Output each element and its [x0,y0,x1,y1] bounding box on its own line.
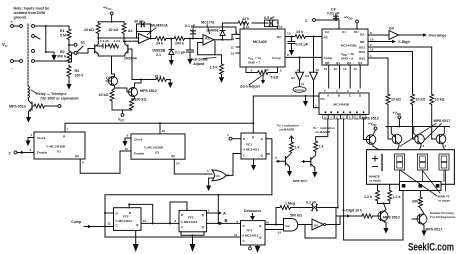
svg-text:0.01 μF: 0.01 μF [296,43,309,47]
svg-text:isolated from DVM: isolated from DVM [14,11,46,15]
capacitor 0.01uF on RC [288,37,295,48]
wire collector rail [98,21,124,23]
relay contact pair top [20,25,23,28]
svg-text:5 kΩ: 5 kΩ [271,76,279,80]
svg-text:Q4: Q4 [358,61,362,65]
svg-text:Enable: Enable [37,151,47,155]
svg-text:Comp: Comp [272,56,281,60]
FF2 Q to FF3 clock [141,222,179,224]
svg-text:½ MC14013: ½ MC14013 [243,148,260,152]
transistor T0 sign driver [366,135,376,145]
inverter G2 [299,57,301,72]
resistor R2 [68,45,70,51]
FF2 R loop from Q [129,204,153,223]
U1 output Q2 pin 6 [80,159,120,173]
decoder bottom pin row [325,114,363,119]
svg-text:15: 15 [370,47,374,51]
resistor 1k plus cell [291,136,293,142]
wire G1 output to Ph [314,80,320,96]
transistor Q2 [129,88,138,97]
wire integrator top [223,22,239,24]
svg-text:Relay — Teledyne: Relay — Teledyne [36,92,67,96]
svg-text:GND = 8: GND = 8 [341,57,353,61]
svg-text:0.1 μF: 0.1 μF [175,51,186,55]
svg-text:For All Segments: For All Segments [430,215,456,219]
wire right base to feedback [128,49,132,80]
wire tap to S1 upper [69,44,74,46]
svg-text:U2: U2 [155,151,159,155]
wire decoder pin to T0 base [364,119,370,140]
U2 output Q2 pin 14 [174,159,212,174]
wire G5 loop [305,225,336,239]
svg-text:MPS 6513: MPS 6513 [362,117,379,121]
decoder internal pin dots [325,111,365,113]
svg-text:500 kΩ: 500 kΩ [290,214,302,218]
digit 3 [439,154,449,170]
svg-text:MPS 6512: MPS 6512 [140,89,157,93]
svg-text:732-1000 or equivalent: 732-1000 or equivalent [40,97,79,101]
FF1 Q output to quadrature bus [266,139,272,195]
IC MC14543B [319,93,369,114]
emitter rail [386,126,450,128]
relay contact pair bottom [20,60,23,63]
svg-text:2: 2 [30,148,32,152]
wire Vin- to contact [14,60,20,62]
digit 1 [395,154,405,170]
svg-text:15: 15 [354,67,358,71]
wire Vin+ to contact [14,25,20,27]
wire DA to G4 [368,34,389,36]
wire DS1 bus [368,47,432,94]
svg-text:U1: U1 [57,150,61,154]
svg-text:Overrange: Overrange [429,34,447,38]
svg-text:DA: DA [360,32,365,36]
switch S1 arm [77,46,83,52]
svg-text:1: 1 [227,133,229,137]
transistor T5 MPS 6517 segment driver [417,214,427,224]
svg-text:12: 12 [343,67,347,71]
FF3 reset to ground [192,235,194,244]
op-amp A2 [203,35,214,46]
svg-text:−: − [11,67,13,71]
wire top contact to divider top [35,25,70,27]
MAN 72 label with segment pointers [400,170,446,196]
svg-text:900 k: 900 k [57,55,66,59]
svg-text:0.1 μF: 0.1 μF [306,201,317,205]
flip-flop FF1 [241,133,266,159]
junction R2/R3 [68,61,70,63]
transistor T1 digit driver [392,134,402,144]
svg-text:1 Meg: 1 Meg [285,202,295,206]
junction R1/R2 [68,44,70,46]
svg-text:G4: G4 [389,27,394,31]
svg-text:2: 2 [370,43,372,47]
FF3 top loop [170,202,187,223]
relay coil [28,86,30,98]
wire bottom contact to divider [35,60,70,62]
svg-text:Note: Inputs must be: Note: Inputs must be [14,6,50,10]
flip-flop FF4 [241,221,266,245]
svg-text:10: 10 [316,68,320,72]
svg-text:10 k: 10 k [296,30,303,34]
wire diff emitters to Q1 collector [112,73,115,75]
svg-text:10: 10 [334,67,338,71]
svg-text:3: 3 [400,144,402,148]
svg-text:14: 14 [324,67,328,71]
svg-text:or equiv.: or equiv. [369,179,382,183]
IC MC1405 [240,29,285,67]
decoder left lower pin [314,96,320,108]
FF3 Q to A output [207,212,218,214]
wire 200k to A2 [185,38,204,40]
counter U2 [131,134,185,159]
relay pointer [31,90,36,93]
dashed mechanical link [27,24,29,86]
svg-text:MPS 6517: MPS 6517 [293,179,308,183]
wire shorting stub [35,36,41,39]
FF4 bottom stubs [249,245,251,247]
svg-text:R3: R3 [75,69,80,73]
svg-text:DS2: DS2 [359,50,365,54]
resistor 100k (Q2 emitter) [132,98,135,100]
wire S1 common to Q base [77,49,95,54]
svg-text:Clock: Clock [37,136,46,140]
flip-flop FF2 [114,208,142,231]
resistor 1.2k right [389,184,391,190]
Q output stubs to decoder [329,65,361,88]
svg-text:11: 11 [234,233,238,237]
wire 1.2k join to T4 collector [378,201,390,210]
svg-text:MPS 6513: MPS 6513 [9,105,26,109]
svg-text:200 k: 200 k [175,42,184,46]
svg-text:or equiv.: or equiv. [438,199,451,203]
U2 reset stub to bus [159,123,161,134]
wire DS3 bus [368,58,388,94]
svg-text:0.5 μF: 0.5 μF [264,16,275,20]
svg-text:13: 13 [246,25,250,29]
svg-text:1: 1 [315,104,317,108]
note text [14,6,50,19]
digit bottom stubs [400,170,444,182]
svg-text:1N4001: 1N4001 [206,29,219,33]
wire decoder pin to half-digit line [343,119,345,216]
svg-text:8: 8 [287,53,289,57]
svg-text:15: 15 [355,115,359,119]
wire top bus B-feedback to FF2 D [105,195,272,213]
svg-text:1 k: 1 k [295,146,300,150]
resistor 24k [156,37,167,41]
inverter G1 [313,37,315,73]
svg-text:Clock: Clock [134,138,143,142]
svg-text:10 kΩ: 10 kΩ [99,93,109,97]
svg-text:24 k: 24 k [156,42,163,46]
svg-text:10: 10 [287,32,291,36]
svg-text:14: 14 [278,231,282,235]
wire comp to lower bus [105,213,241,237]
svg-text:MPS 6517: MPS 6517 [434,119,451,123]
input terminal - [11,60,14,63]
svg-text:11: 11 [231,46,235,50]
transistor 2N3904 left [94,45,96,53]
svg-text:6: 6 [237,220,239,224]
svg-text:10: 10 [125,147,129,151]
svg-text:Q2: Q2 [347,61,351,65]
svg-text:B: B [225,218,228,223]
svg-text:C2: C2 [325,30,329,34]
svg-text:FF2: FF2 [123,215,129,219]
junction [45,25,47,27]
A2 feedback loop [198,41,215,55]
wire NB to half-digit [368,41,392,43]
resistor 10k (Q1 emitter) [112,88,115,91]
svg-text:1.2 k: 1.2 k [364,195,372,199]
svg-text:2N3904: 2N3904 [124,57,137,61]
wire Q2 collector to 91k node [135,80,142,86]
svg-text:12: 12 [297,68,301,72]
svg-text:MPS 6513: MPS 6513 [383,216,400,220]
collector wires into display [373,146,445,150]
base network cap [97,44,108,48]
FF1 set pin ground [253,159,255,162]
svg-text:2: 2 [347,89,349,93]
wire shorting switch to ground [46,26,54,52]
svg-text:5: 5 [280,68,282,72]
svg-text:½ MC14013: ½ MC14013 [115,219,132,223]
gate G4b (AND) [284,219,298,232]
svg-text:MC14543B: MC14543B [334,103,350,107]
base resistor of relay driver [32,105,34,107]
base network resistor [108,44,119,48]
svg-text:20 kΩ: 20 kΩ [84,28,94,32]
svg-text:Comp: Comp [295,88,304,92]
counter U1 [34,132,85,159]
gate G3 (NOR) [212,170,227,181]
wire left collector to A1 inverting input [98,37,136,39]
wire A1 output [150,38,156,40]
svg-text:G2: G2 [291,76,295,80]
plus-minus half digit [373,156,378,161]
svg-text:5: 5 [207,169,209,173]
wire common emitters [98,56,125,74]
ground on Ph line [305,96,307,98]
svg-text:Ph: Ph [321,97,325,101]
svg-text:1: 1 [31,133,33,137]
svg-text:8: 8 [370,31,372,35]
transistor T4 MPS 6513 [378,211,388,221]
wire segment loop to display connector [344,191,403,241]
svg-text:A: A [223,211,226,216]
svg-text:0.01 μF: 0.01 μF [327,12,340,16]
display module box [367,150,455,185]
svg-text:Zero Adjust: Zero Adjust [240,85,261,89]
FF1 Qbar stub [266,153,270,155]
svg-text:4: 4 [251,68,253,72]
FF3 feedback loop [181,232,204,235]
svg-text:2.2 k: 2.2 k [114,39,121,43]
wire tap to S1 lower [69,53,74,62]
svg-text:Q1: Q1 [336,61,340,65]
shorting contacts [32,35,35,38]
svg-text:9: 9 [127,134,129,138]
svg-text:Debounce: Debounce [244,209,261,213]
svg-text:G1: G1 [305,74,309,78]
svg-text:S1: S1 [81,41,85,45]
transistor minus indicator [310,158,312,167]
terminal VEE [121,114,124,117]
svg-text:2: 2 [233,37,235,41]
svg-text:14: 14 [231,52,235,56]
wire FF2 D [105,212,114,214]
wire Vcc stem [111,15,113,22]
op-amp A1 [139,34,150,44]
svg-text:MC1741: MC1741 [201,21,215,25]
svg-text:15: 15 [162,129,166,133]
input terminal + [11,25,14,28]
G3 lower input from ground [209,178,214,183]
wire G3 output to FF1 clock [227,154,242,176]
svg-text:0.1 μF: 0.1 μF [100,39,109,43]
svg-text:+: + [11,20,13,24]
pin 13 stub [243,23,245,29]
svg-text:1: 1 [208,209,210,213]
svg-text:MC14435B: MC14435B [341,44,357,48]
svg-text:Enable: Enable [134,152,144,156]
svg-text:1 k: 1 k [319,145,324,149]
svg-text:42 k: 42 k [242,17,249,21]
svg-text:100 kΩ: 100 kΩ [135,98,147,102]
svg-text:SeekIC.com: SeekIC.com [408,242,454,254]
svg-text:5 M: 5 M [60,34,66,38]
svg-text:½ MC14518B: ½ MC14518B [144,146,164,150]
svg-text:10: 10 [370,37,374,41]
resistor 200k [174,37,185,41]
resistor R3 [68,65,70,66]
svg-text:Comp: Comp [71,220,82,224]
svg-text:1.2 k: 1.2 k [393,195,401,199]
resistor 1.2k left [377,184,379,190]
svg-text:½ MC14013: ½ MC14013 [242,234,259,238]
svg-text:½ MC14013: ½ MC14013 [181,220,198,224]
svg-text:20 kΩ: 20 kΩ [109,28,119,32]
resistor 1k minus cell [314,141,318,152]
resistor 20k right [123,22,125,23]
terminal D (relay drive) [58,105,61,108]
svg-text:7: 7 [67,128,69,132]
ground below relay transistor [26,114,31,123]
svg-text:6: 6 [82,161,84,165]
wire A2 output to MC1405 pin 3 [214,34,240,39]
svg-text:7: 7 [324,89,326,93]
flip-flop FF3 [179,210,207,231]
svg-text:½-Digit: ½-Digit [398,40,411,44]
resistor 10k digit2 [411,94,415,105]
svg-text:1.5 k: 1.5 k [210,66,218,70]
pin 2 stub [236,38,240,40]
wire decoder pin to RC one-shot [337,119,339,208]
svg-text:R2: R2 [60,50,65,54]
svg-text:C: C [305,19,308,23]
resistor 91k [132,79,156,81]
svg-text:Comp: Comp [324,56,333,60]
IC MC14435B [322,29,368,65]
svg-text:3: 3 [423,144,425,148]
wire G4 to Overrange [399,34,424,36]
transistor 2N3904 right [127,45,129,53]
svg-text:12: 12 [279,25,283,29]
svg-text:10 kΩ: 10 kΩ [391,98,401,102]
transistor T3 digit driver [436,134,446,144]
svg-text:13: 13 [143,219,147,223]
svg-text:11: 11 [108,222,112,226]
svg-text:2.1: 2.1 [156,53,161,57]
wire reset bus [65,96,314,123]
svg-text:A1: A1 [128,29,133,33]
resistor 10k digit1 [386,94,390,105]
svg-text:on MAN78: on MAN78 [279,128,294,132]
ground [51,52,56,61]
FF2 reset to ground [135,230,137,244]
wire G5 output to half-digit [326,216,340,225]
svg-text:1N823B: 1N823B [152,49,166,53]
svg-text:3: 3 [175,219,177,223]
segment connector sub-box [400,182,442,191]
wire decoder pin to minus-sign cell [316,119,328,141]
pin 11 stub [236,46,240,48]
svg-text:10: 10 [323,115,327,119]
ground below zener [169,57,174,66]
resistor R1 [68,26,70,29]
svg-text:11: 11 [301,82,305,86]
svg-text:MLM301A: MLM301A [151,24,168,28]
FF4 Q to gate inputs [265,224,284,226]
wire feedback to G5 output [335,208,337,225]
inverter G5 [298,224,312,226]
resistor 10k digit3 [430,94,434,105]
svg-text:RC: RC [277,35,282,39]
svg-text:MPS 6517: MPS 6517 [426,228,443,232]
transistor T2 digit driver [415,134,425,144]
svg-text:DU: DU [354,30,359,34]
svg-text:A2: A2 [205,37,210,41]
wire DS2 bus [368,52,413,95]
wire to zener node [166,38,174,40]
svg-text:10 kΩ: 10 kΩ [416,98,426,102]
svg-text:10: 10 [266,221,270,225]
svg-text:RC: RC [324,36,329,40]
svg-text:100 k: 100 k [75,74,84,78]
svg-text:Q2: Q2 [75,154,79,158]
svg-text:MC1405: MC1405 [253,40,267,44]
digit 2 [418,154,428,170]
svg-text:Adjust: Adjust [193,62,205,66]
ground below R3 [68,77,70,82]
svg-text:10 kΩ: 10 kΩ [435,98,445,102]
wire emitter resistors to VEE [112,110,132,114]
svg-text:30 pF: 30 pF [134,20,144,24]
svg-text:R1: R1 [60,29,65,33]
U1 clock pin grounded [28,137,34,139]
svg-text:C: C [9,152,12,156]
svg-text:1: 1 [336,89,338,93]
svg-text:DS1: DS1 [359,46,365,50]
svg-text:GND = 7: GND = 7 [248,61,260,65]
resistor 1.5k [215,55,222,64]
wire U1 Q to U2 enable [120,151,131,173]
pin 14 stub [236,52,240,54]
switch S1 contacts [74,43,77,46]
U1 reset stub to bus [64,123,66,132]
svg-text:G3: G3 [216,174,220,178]
